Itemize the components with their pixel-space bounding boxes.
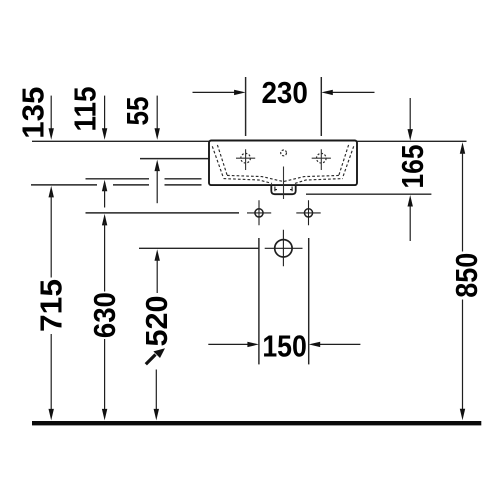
wire extension line left of 230 dim <box>245 77 247 136</box>
dimension 115 down arrow <box>102 96 107 140</box>
svg-text:520: 520 <box>139 296 174 347</box>
wire rim reference line <box>32 140 467 142</box>
wire 55-level line <box>140 158 211 160</box>
dimension 520 vertical with arrows <box>154 249 160 420</box>
dimension 165 arrows <box>408 98 413 241</box>
dimension 630 vertical with arrows <box>102 214 107 421</box>
wire siphon level line <box>306 193 431 195</box>
dimension 115 lower up arrow <box>102 180 107 208</box>
dimension 715 vertical with arrows <box>49 186 54 421</box>
node floor line <box>32 421 481 425</box>
dimension 55 down arrow <box>155 96 160 140</box>
fixing hole left <box>247 200 271 225</box>
overflow hole <box>281 150 287 156</box>
wire extension line left of 150 dim <box>258 238 260 364</box>
wire 135-level line <box>31 184 202 186</box>
dimension 135 down arrow <box>49 96 54 140</box>
svg-text:135: 135 <box>16 87 51 139</box>
drain circle with crosshair <box>265 230 303 266</box>
dimension 55 lower up arrow <box>155 160 160 204</box>
dimension 230 arrows <box>193 90 375 95</box>
dimension 850 <box>460 142 465 420</box>
dimension 150 arrows <box>208 342 360 347</box>
diagonal leader arrow near 520 <box>146 348 165 364</box>
fixing hole right <box>296 200 320 225</box>
wire extension line right of 230 dim <box>320 77 322 136</box>
svg-text:230: 230 <box>261 75 308 110</box>
drain flange below basin <box>271 185 295 194</box>
svg-text:715: 715 <box>34 279 69 332</box>
svg-text:165: 165 <box>395 145 430 189</box>
svg-text:115: 115 <box>68 87 103 132</box>
svg-text:630: 630 <box>87 292 122 338</box>
svg-text:150: 150 <box>262 328 307 363</box>
tap hole left with centerlines <box>236 149 255 170</box>
washbasin hidden interior dashed lines <box>212 145 353 184</box>
tap hole right with centerlines <box>312 149 331 170</box>
wire 115-level line <box>86 178 202 180</box>
wire extension line right of 150 dim <box>308 238 310 364</box>
washbasin outline <box>209 141 357 186</box>
vertical centerline through drain <box>283 167 285 200</box>
svg-text:850: 850 <box>449 253 484 298</box>
svg-text:55: 55 <box>120 97 155 126</box>
wire fixing-hole level line <box>86 212 240 214</box>
wire drain-center level line <box>139 247 259 249</box>
